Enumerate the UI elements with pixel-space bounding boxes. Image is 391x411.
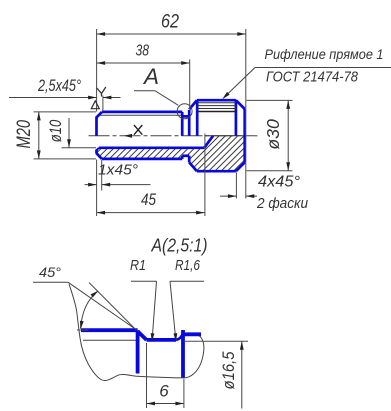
extension groove x189.7: [189, 60, 191, 110]
knurling shelf: [255, 67, 391, 69]
left face lower: [95, 150, 98, 154]
svg-text:R1,6: R1,6: [175, 257, 201, 274]
extension chamfer x236.4: [235, 173, 237, 199]
detail slope extension line: [89, 283, 137, 331]
head right chamfer bottom: [236, 162, 245, 171]
dim 6 extensions: [147, 343, 184, 408]
section top boundary at axis: [205, 135, 245, 137]
svg-text:ø30: ø30: [263, 119, 283, 150]
extension left x96.6 lower: [96, 160, 98, 217]
head left chamfer cone top: [189, 100, 197, 109]
knurl boundary line: [235, 100, 238, 136]
triangle mark: [91, 101, 99, 109]
extension left x96.6 upper: [96, 29, 98, 112]
head bottom edge: [197, 170, 236, 173]
R1,6 leader: [170, 281, 176, 340]
drill cone: [204, 136, 213, 148]
groove bottom lower: [182, 154, 189, 157]
dim o10: [68, 118, 70, 148]
left end chamfer top: [97, 112, 102, 118]
left face upper: [95, 117, 98, 136]
detail top surface: [81, 328, 138, 332]
dim 38: [97, 62, 190, 64]
head top edge: [197, 99, 236, 102]
extension 1x45 right: [101, 160, 103, 191]
groove right wall: [188, 110, 191, 136]
detail 45 slope: [138, 331, 147, 340]
extension hole depth x205.2: [204, 134, 206, 217]
dim 4x45: [220, 195, 257, 197]
detail thread minor line: [83, 339, 139, 341]
groove left wall: [181, 112, 184, 136]
knurl line heavy: [198, 111, 236, 113]
hole entrance chamfer: [97, 148, 99, 150]
svg-text:А: А: [142, 64, 159, 89]
svg-text:ø10: ø10: [46, 119, 65, 142]
groove bottom upper: [182, 115, 189, 118]
detail groove right wall: [181, 330, 185, 378]
knurling leader: [224, 68, 255, 98]
centerline: [89, 135, 258, 137]
dim 6: [147, 403, 184, 405]
dim 62: [97, 33, 246, 35]
extension right x245.8: [245, 29, 247, 199]
head right chamfer top: [236, 100, 245, 109]
section hatching: [63, 105, 355, 180]
R1 leader: [152, 281, 156, 340]
shank bottom edge: [102, 158, 182, 161]
groove right wall lower: [188, 156, 191, 163]
extension M20 bottom: [34, 158, 97, 160]
knurl lines: [198, 103, 236, 109]
svg-text:R1: R1: [130, 257, 146, 274]
extension chamfer x102.9: [102, 96, 104, 112]
extension o30 bottom: [247, 170, 293, 172]
dim M20: [38, 112, 40, 159]
detail groove bottom: [147, 338, 177, 342]
R1,6 shelf: [170, 280, 204, 282]
A leader: [134, 91, 178, 106]
svg-text:62: 62: [161, 12, 179, 33]
svg-text:ø16,5: ø16,5: [219, 351, 238, 389]
extension o10: [62, 147, 97, 149]
groove left wall lower: [181, 156, 184, 159]
dim 45deg shelf: [33, 281, 68, 283]
detail groove left wall: [136, 330, 140, 373]
svg-text:38: 38: [136, 43, 150, 60]
dim o30: [287, 100, 289, 170]
svg-text:А(2,5:1): А(2,5:1): [151, 235, 208, 256]
svg-text:45: 45: [141, 190, 156, 209]
extension o30 top: [247, 99, 293, 101]
svg-text:4x45°: 4x45°: [258, 174, 300, 191]
svg-text:45°: 45°: [39, 264, 61, 280]
svg-text:Рифление прямое 1: Рифление прямое 1: [265, 46, 384, 62]
R1 shelf: [131, 280, 157, 282]
detail surface ext left: [77, 329, 89, 331]
extension M20 top: [34, 111, 97, 113]
detail fillet R1.6: [176, 333, 183, 340]
chamfer V mark: [97, 87, 106, 97]
centerline arrow: [124, 134, 133, 138]
dim 45deg arc: [81, 291, 99, 329]
dim o16.5 line: [241, 341, 243, 408]
detail boundary: [69, 284, 204, 381]
svg-text:1x45°: 1x45°: [98, 162, 138, 179]
dim 1x45: [85, 184, 151, 186]
head right face: [243, 109, 246, 162]
hole wall: [99, 146, 204, 149]
shank top edge: [102, 111, 182, 114]
svg-text:2,5x45°: 2,5x45°: [37, 76, 81, 95]
dim 45deg leader: [68, 282, 136, 329]
dim o16.5 extension: [184, 340, 249, 342]
head left chamfer cone bottom: [189, 162, 197, 171]
detail circle A: [177, 104, 192, 119]
dim 45: [97, 212, 205, 214]
svg-text:М20: М20: [14, 120, 35, 149]
dim 2,5x45 line: [9, 97, 121, 99]
svg-text:ГОСТ 21474-78: ГОСТ 21474-78: [266, 69, 359, 86]
svg-text:2 фаски: 2 фаски: [256, 195, 308, 212]
head left face line: [196, 100, 199, 136]
svg-text:6: 6: [159, 382, 169, 401]
detail right surface: [183, 332, 201, 336]
thread minor diameter line: [99, 114, 182, 116]
left end chamfer bottom: [97, 153, 102, 159]
center cross mark x: [134, 125, 142, 135]
